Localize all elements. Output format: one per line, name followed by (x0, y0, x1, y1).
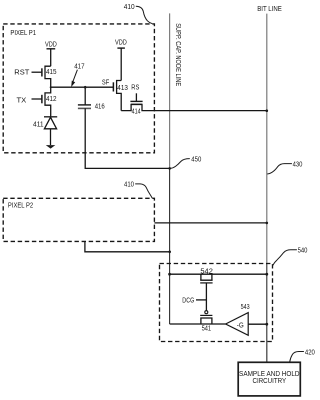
svg-text:411: 411 (33, 121, 44, 128)
svg-text:541: 541 (202, 326, 212, 333)
svg-text:SUPP. CAP. NODE LINE: SUPP. CAP. NODE LINE (174, 23, 181, 86)
svg-text:420: 420 (305, 349, 315, 356)
svg-text:410: 410 (124, 4, 135, 11)
svg-text:PIXEL P1: PIXEL P1 (10, 30, 36, 37)
svg-text:540: 540 (298, 247, 308, 254)
svg-text:415: 415 (46, 69, 57, 76)
svg-text:RST: RST (14, 69, 30, 76)
svg-text:414: 414 (132, 108, 141, 115)
svg-text:410: 410 (124, 182, 134, 189)
svg-text:RS: RS (131, 85, 139, 92)
svg-text:450: 450 (191, 157, 201, 164)
svg-text:PIXEL P2: PIXEL P2 (8, 202, 33, 209)
svg-text:543: 543 (241, 304, 250, 311)
svg-text:BIT LINE: BIT LINE (257, 6, 282, 13)
svg-text:413: 413 (117, 85, 128, 92)
svg-text:-G: -G (237, 323, 244, 330)
svg-text:542: 542 (200, 268, 213, 275)
svg-text:VDD: VDD (45, 41, 57, 48)
svg-text:VDD: VDD (115, 39, 127, 46)
svg-text:DCG: DCG (182, 298, 194, 305)
svg-text:430: 430 (293, 162, 303, 169)
svg-text:412: 412 (46, 96, 57, 103)
svg-text:TX: TX (17, 97, 27, 104)
svg-text:416: 416 (95, 104, 105, 111)
svg-text:CIRCUITRY: CIRCUITRY (253, 376, 287, 385)
svg-text:SF: SF (102, 80, 109, 87)
svg-text:417: 417 (74, 64, 84, 71)
